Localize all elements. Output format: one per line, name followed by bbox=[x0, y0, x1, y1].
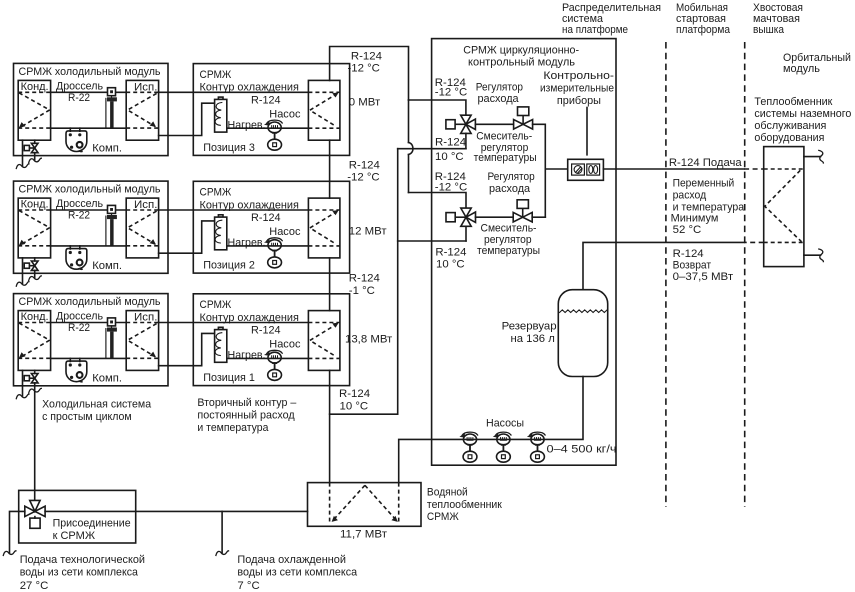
ground service heat exchanger bbox=[764, 147, 804, 267]
svg-text:с простым циклом: с простым циклом bbox=[42, 411, 132, 423]
svg-text:Подача охлажденной: Подача охлажденной bbox=[237, 554, 346, 566]
instruments box bbox=[568, 159, 604, 180]
wire trunk HX2 to HX1 bbox=[329, 258, 331, 311]
svg-text:0 МВт: 0 МВт bbox=[349, 97, 381, 109]
wire main trunk top feed bbox=[330, 47, 409, 101]
label Регулятор расхода 1 bbox=[476, 81, 523, 105]
ground HX bottom stub bbox=[804, 254, 821, 256]
label Хвостовая мачтовая вышка bbox=[753, 2, 803, 36]
svg-text:и температура: и температура bbox=[673, 201, 745, 213]
svg-text:10 °C: 10 °C bbox=[435, 151, 464, 163]
svg-text:7 °C: 7 °C bbox=[237, 580, 259, 592]
svg-text:контрольный модуль: контрольный модуль bbox=[468, 56, 575, 68]
label R-124 -12C loop1 bbox=[435, 77, 467, 99]
wire module 1 drain valve to process water valve bbox=[34, 383, 36, 500]
label Контрольно-измерительные приборы bbox=[540, 70, 614, 107]
label R-124 -12C loop2 bbox=[435, 171, 467, 194]
break symbol bbox=[819, 150, 824, 163]
break symbol bbox=[819, 249, 824, 262]
water heat exchanger box bbox=[308, 483, 422, 527]
svg-text:платформа: платформа bbox=[676, 24, 731, 36]
label Подача технологической воды 27C bbox=[20, 554, 145, 592]
svg-text:R-124: R-124 bbox=[435, 246, 466, 258]
svg-text:вышка: вышка bbox=[753, 24, 785, 36]
pump P3 bbox=[527, 432, 545, 462]
svg-text:воды из сети комплекса: воды из сети комплекса bbox=[20, 566, 139, 578]
svg-text:обслуживания: обслуживания bbox=[754, 120, 826, 132]
svg-text:и температура: и температура bbox=[197, 422, 269, 434]
svg-text:R-124: R-124 bbox=[349, 273, 380, 285]
svg-text:СРМЖ циркуляционно-: СРМЖ циркуляционно- bbox=[463, 44, 579, 56]
wire return trunk to main trunk bbox=[330, 149, 398, 415]
svg-text:температуры: температуры bbox=[477, 245, 540, 257]
svg-text:R-124: R-124 bbox=[435, 137, 466, 149]
svg-text:10 °C: 10 °C bbox=[436, 259, 465, 271]
svg-text:измерительные: измерительные bbox=[540, 82, 614, 94]
svg-text:Регулятор: Регулятор bbox=[476, 81, 523, 93]
svg-text:приборы: приборы bbox=[557, 95, 601, 107]
wire supply to mixing valve 1 bbox=[409, 100, 466, 115]
svg-text:11,7 МВт: 11,7 МВт bbox=[340, 528, 388, 540]
svg-text:Смеситель-: Смеситель- bbox=[476, 130, 532, 142]
label R-124 -12C top bbox=[348, 50, 382, 74]
wire drain valve outlet row2 bbox=[34, 270, 36, 277]
svg-text:Минимум: Минимум bbox=[671, 213, 719, 225]
svg-text:R-124: R-124 bbox=[349, 160, 380, 172]
platform boundary dashed line 1 bbox=[665, 42, 667, 507]
wire reservoir to pumps line bbox=[399, 377, 583, 483]
label Регулятор расхода 2 bbox=[488, 171, 535, 195]
wire manifold to instruments bbox=[545, 168, 567, 170]
svg-text:Насосы: Насосы bbox=[486, 418, 524, 430]
wire flow valve 2 to manifold bbox=[532, 216, 545, 218]
label R-124 10C loop1 bbox=[435, 137, 466, 164]
wire supply trunk bbox=[408, 100, 410, 193]
svg-text:-12 °C: -12 °C bbox=[435, 182, 467, 194]
crossover hop bbox=[409, 143, 414, 155]
reservoir tank 136 л bbox=[558, 290, 607, 377]
wire supply out (R-124 Подача) bbox=[603, 168, 744, 170]
mixing valve 2 (Смеситель-регулятор) bbox=[446, 208, 476, 226]
flow control valve 2 bbox=[513, 200, 532, 222]
svg-text:R-124 Подача: R-124 Подача bbox=[669, 157, 742, 169]
svg-text:оборудования: оборудования bbox=[754, 132, 824, 144]
cooling loop 1 bbox=[159, 294, 350, 386]
svg-text:Контрольно-: Контрольно- bbox=[543, 70, 614, 82]
wire mixing valve 1 to flow valve 1 bbox=[475, 123, 513, 125]
label Присоединение к СРМЖ bbox=[53, 518, 131, 542]
four-way process valve bbox=[25, 500, 45, 528]
svg-text:-12 °C: -12 °C bbox=[348, 63, 380, 75]
label Теплообменник системы наземного обслуживания оборудования bbox=[754, 96, 851, 144]
wire process water inlet bbox=[10, 511, 25, 552]
break symbol bbox=[29, 158, 42, 163]
svg-text:Холодильная система: Холодильная система bbox=[42, 399, 152, 411]
svg-text:Присоединение: Присоединение bbox=[53, 518, 131, 530]
label control module title bbox=[463, 44, 579, 68]
wire mixing valve 2 to return bbox=[465, 226, 467, 241]
svg-text:воды из сети комплекса: воды из сети комплекса bbox=[237, 566, 357, 578]
svg-text:0–4 500 кг/ч: 0–4 500 кг/ч bbox=[547, 443, 617, 455]
svg-text:Регулятор: Регулятор bbox=[488, 171, 535, 183]
refrigeration module 2 bbox=[14, 181, 169, 286]
wire return loop 2 bbox=[398, 240, 466, 242]
process water connection box (Присоединение к СРМЖ) bbox=[19, 490, 136, 543]
svg-text:R-124: R-124 bbox=[673, 248, 704, 260]
refrigeration module 3 (top, Позиция 3 row) bbox=[14, 63, 169, 168]
label Подача охлажденной воды 7C bbox=[237, 554, 357, 592]
wire return in (R-124 Возврат) bbox=[744, 241, 764, 243]
svg-text:к СРМЖ: к СРМЖ bbox=[53, 530, 96, 542]
svg-text:теплообменник: теплообменник bbox=[427, 499, 503, 511]
label Мобильная стартовая платформа bbox=[676, 2, 731, 36]
ground HX top stub bbox=[804, 156, 821, 158]
svg-text:-12 °C: -12 °C bbox=[435, 86, 467, 98]
wire drain valve outlet row1 bbox=[34, 153, 36, 160]
break symbol bbox=[3, 551, 16, 556]
svg-text:13,8 МВт: 13,8 МВт bbox=[345, 333, 393, 345]
label R-124 10C loop2 bbox=[435, 246, 466, 270]
wire flow valve 1 to manifold bbox=[533, 124, 546, 217]
svg-text:R-124: R-124 bbox=[351, 50, 382, 62]
svg-text:-1 °C: -1 °C bbox=[349, 285, 375, 297]
label R-124 -1C bbox=[349, 273, 380, 297]
svg-text:модуль: модуль bbox=[783, 63, 820, 75]
break symbol bbox=[216, 551, 229, 556]
wire process valve to water heat exchanger bbox=[45, 510, 307, 512]
break symbol bbox=[29, 388, 42, 393]
svg-text:52 °C: 52 °C bbox=[673, 224, 702, 236]
wire trunk HX3 to HX2 bbox=[329, 140, 331, 198]
svg-text:Подача технологической: Подача технологической bbox=[20, 554, 145, 566]
svg-text:27 °C: 27 °C bbox=[20, 580, 49, 592]
break symbol bbox=[29, 276, 42, 281]
svg-text:Переменный: Переменный bbox=[673, 177, 735, 189]
svg-text:Резервуар: Резервуар bbox=[502, 321, 557, 333]
label Резервуар на 136 л bbox=[502, 321, 557, 345]
svg-text:-12 °C: -12 °C bbox=[347, 171, 379, 183]
svg-text:Вторичный контур –: Вторичный контур – bbox=[197, 397, 297, 409]
label R-124 10C trunk bbox=[339, 388, 370, 412]
control module box bbox=[432, 39, 616, 466]
label Смеситель-регулятор температуры 1 bbox=[474, 130, 537, 164]
svg-text:температуры: температуры bbox=[474, 152, 537, 164]
label Распределительная система на платформе bbox=[562, 2, 661, 36]
svg-text:расхода: расхода bbox=[489, 183, 531, 195]
wire trunk HX1 to water heat exchanger bbox=[329, 370, 331, 482]
pump P2 bbox=[493, 432, 511, 462]
wire supply to mixing valve 2 bbox=[409, 193, 467, 209]
svg-text:Позиция 2: Позиция 2 bbox=[203, 260, 255, 272]
svg-text:12 МВт: 12 МВт bbox=[349, 225, 388, 237]
platform boundary dashed line 2 bbox=[744, 42, 746, 507]
label Вторичный контур – постоянный расход и температура bbox=[197, 397, 297, 434]
label Холодильная система с простым циклом bbox=[42, 399, 152, 423]
label Водяной теплообменник СРМЖ bbox=[427, 487, 503, 523]
svg-text:постоянный расход: постоянный расход bbox=[197, 410, 295, 422]
cooling loop 3 bbox=[159, 64, 350, 156]
svg-text:Водяной: Водяной bbox=[427, 487, 468, 499]
svg-text:0–37,5 МВт: 0–37,5 МВт bbox=[673, 271, 734, 283]
svg-text:системы наземного: системы наземного bbox=[754, 108, 851, 120]
label R-124 -12C mid bbox=[347, 160, 380, 184]
pump P1 bbox=[459, 432, 477, 462]
pointer line to instruments bbox=[586, 108, 588, 155]
refrigeration module 1 (bottom) bbox=[14, 294, 169, 399]
svg-text:СРМЖ: СРМЖ bbox=[427, 511, 459, 523]
svg-text:Возврат: Возврат bbox=[673, 260, 712, 272]
wire mixing valve 2 to flow valve 2 bbox=[476, 216, 514, 218]
flow control valve 1 bbox=[514, 107, 533, 129]
svg-text:Позиция 3: Позиция 3 bbox=[203, 142, 255, 154]
svg-text:10 °C: 10 °C bbox=[340, 400, 369, 412]
svg-text:Позиция 1: Позиция 1 bbox=[203, 372, 255, 384]
label Переменный расход и температура Минимум 52C bbox=[671, 177, 745, 236]
wire mixing valve 1 to return bbox=[465, 133, 467, 148]
cooling loop 2 bbox=[159, 181, 350, 273]
label Орбитальный модуль bbox=[783, 52, 851, 75]
svg-text:Смеситель-: Смеситель- bbox=[481, 223, 537, 235]
wire return loop 1 bbox=[398, 148, 466, 150]
label R-124 Возврат 0-37,5 МВт bbox=[673, 248, 734, 283]
svg-text:Теплообменник: Теплообменник bbox=[754, 96, 833, 108]
svg-text:R-124: R-124 bbox=[339, 388, 370, 400]
svg-text:на 136 л: на 136 л bbox=[511, 333, 555, 345]
svg-text:расход: расход bbox=[673, 190, 707, 202]
wire chilled water branch bbox=[221, 511, 223, 552]
svg-text:расхода: расхода bbox=[478, 93, 520, 105]
svg-text:на платформе: на платформе bbox=[562, 24, 628, 36]
mixing valve 1 (Смеситель-регулятор) bbox=[446, 115, 476, 133]
label Смеситель-регулятор температуры 2 bbox=[477, 223, 540, 257]
